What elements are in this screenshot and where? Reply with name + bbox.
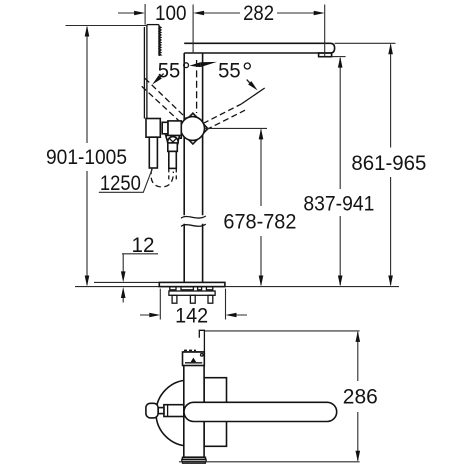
dashed spout swung right bbox=[203, 104, 241, 124]
base plate bbox=[159, 282, 225, 286]
swivel square bbox=[178, 113, 208, 144]
riser pipe bbox=[184, 53, 202, 282]
shower holder rail bbox=[144, 25, 147, 119]
temp knob bbox=[146, 403, 158, 418]
temp cylinder bbox=[164, 405, 184, 417]
connector bbox=[162, 122, 168, 134]
svg-text:901-1005: 901-1005 bbox=[46, 146, 127, 169]
shower grip bbox=[146, 119, 160, 138]
dim 678-782 bbox=[205, 127, 268, 129]
svg-text:100: 100 bbox=[155, 2, 187, 25]
svg-text:678-782: 678-782 bbox=[223, 211, 296, 234]
column bbox=[184, 352, 204, 457]
svg-text:55: 55 bbox=[158, 60, 181, 83]
spout bbox=[184, 43, 334, 53]
hand shower head bbox=[147, 24, 159, 26]
diverter collar bbox=[166, 135, 180, 143]
lever handle bbox=[184, 402, 337, 421]
dim 901-1005 bbox=[86, 27, 88, 285]
housing square bbox=[204, 378, 226, 447]
diverter stem bbox=[168, 143, 178, 152]
knob box bbox=[183, 352, 205, 366]
dim 142 bbox=[160, 289, 225, 320]
mounting bracket bbox=[170, 287, 176, 290]
escutcheon circle bbox=[156, 380, 222, 446]
mixer body bbox=[168, 121, 181, 138]
dim 282 bbox=[203, 12, 315, 14]
svg-text:837-941: 837-941 bbox=[303, 193, 374, 216]
dashed spout swung left bbox=[145, 78, 190, 121]
svg-text:861-965: 861-965 bbox=[351, 152, 426, 175]
dim 861-965 bbox=[390, 45, 392, 286]
temp stem bbox=[158, 408, 164, 414]
swivel arc arrow bbox=[189, 62, 200, 67]
foot rings bbox=[182, 457, 205, 459]
svg-text:1250: 1250 bbox=[100, 172, 141, 195]
extension lines bbox=[192, 5, 194, 54]
shower tail bbox=[149, 137, 157, 168]
aerator bbox=[319, 53, 332, 57]
dim 837-941 bbox=[339, 58, 341, 285]
diverter ball bbox=[168, 137, 179, 148]
hidden centerline bbox=[196, 60, 198, 113]
ball joint circle bbox=[181, 117, 205, 141]
shower hose bbox=[151, 169, 173, 187]
holder hook bbox=[199, 330, 204, 352]
dim 286 bbox=[205, 330, 360, 332]
svg-text:286: 286 bbox=[343, 386, 378, 409]
svg-text:55: 55 bbox=[218, 60, 241, 83]
svg-text:282: 282 bbox=[243, 2, 274, 25]
pipe break bbox=[181, 216, 206, 218]
floor line bbox=[75, 286, 399, 288]
svg-text:142: 142 bbox=[175, 305, 208, 328]
dim 100 bbox=[118, 12, 135, 14]
